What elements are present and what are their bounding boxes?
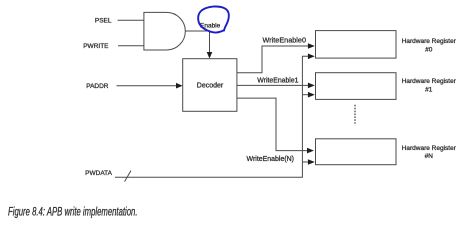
wire WriteEnable0 from Decoder to Hardware Register 0 xyxy=(237,46,308,73)
hardware register 1 box xyxy=(316,73,397,100)
wire PADDR arrow into Decoder xyxy=(117,85,177,87)
svg-text:PSEL: PSEL xyxy=(95,17,112,24)
svg-text:#N: #N xyxy=(425,153,434,160)
decoder U1 box xyxy=(183,59,237,112)
svg-text:WriteEnable0: WriteEnable0 xyxy=(263,37,307,44)
wire PWDATA bus line and riser xyxy=(115,56,308,177)
wire AND gate output to Decoder (Enable net) xyxy=(185,31,209,52)
svg-text:#0: #0 xyxy=(425,47,433,54)
svg-text:Hardware Register: Hardware Register xyxy=(402,145,457,152)
svg-text:WriteEnable1: WriteEnable1 xyxy=(257,77,298,84)
svg-text:PADDR: PADDR xyxy=(86,83,109,90)
wire PWRITE to AND gate xyxy=(118,45,144,47)
svg-text:PWDATA: PWDATA xyxy=(85,170,113,177)
svg-text:PWRITE: PWRITE xyxy=(83,43,109,50)
svg-text:WriteEnable(N): WriteEnable(N) xyxy=(247,156,295,163)
svg-text:Hardware Register: Hardware Register xyxy=(402,38,457,45)
wire WriteEnable1 from Decoder to Hardware Register 1 xyxy=(237,84,308,86)
AND gate xyxy=(144,12,185,50)
hardware register 0 box xyxy=(316,31,397,58)
wire PSEL to AND gate xyxy=(118,19,145,21)
svg-text:Decoder: Decoder xyxy=(197,83,224,90)
svg-text:#1: #1 xyxy=(425,87,433,94)
wire PWDATA branch to Hardware Register N xyxy=(302,161,308,163)
wire WriteEnable(N) from Decoder to Hardware Register N xyxy=(237,98,307,151)
bus width slash on PWDATA xyxy=(125,171,132,182)
svg-text:Hardware Register: Hardware Register xyxy=(402,78,457,85)
hardware register N box xyxy=(316,139,397,165)
ellipsis dotted line between registers xyxy=(354,105,356,125)
blue pen annotation circle around Enable xyxy=(198,7,229,33)
svg-text:Figure 8.4: APB write implemen: Figure 8.4: APB write implementation. xyxy=(8,207,138,219)
wire PWDATA branch to Hardware Register 1 xyxy=(302,94,308,96)
